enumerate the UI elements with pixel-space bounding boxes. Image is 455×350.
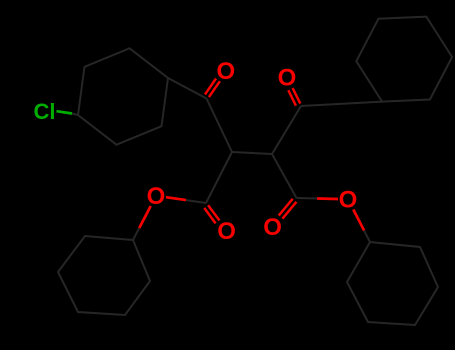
Cl bond green half — [57, 111, 73, 113]
ester 2 O to ring D red half — [353, 210, 364, 231]
ketone 2 double bond C1R=O — [293, 88, 301, 104]
wire central bond C2 to C3 — [232, 152, 272, 154]
ketone 1 double bond C1L=O — [209, 81, 220, 97]
svg-text:Cl: Cl — [34, 99, 56, 124]
wire C1L to central C2 — [207, 99, 233, 153]
wire C2 to ester carbon CeL — [206, 152, 232, 203]
ester 1 C=O double bond — [204, 208, 215, 223]
ester 1 C-O bond gray half — [186, 200, 206, 203]
ester 1 C-O bond red half — [166, 197, 186, 200]
svg-text:O: O — [216, 58, 235, 85]
wire C1R to benzene ring B ipso — [301, 102, 382, 106]
wire ring A ipso to ketone carbon C1L — [168, 78, 207, 99]
ester 1 O to ring C gray stub — [133, 228, 139, 240]
svg-text:O: O — [278, 65, 297, 92]
wire C3 to ketone carbon C1R — [272, 106, 301, 154]
svg-text:O: O — [263, 214, 282, 241]
ester 2 C-O bond red half — [317, 197, 338, 200]
benzene ring D (bottom right) — [347, 242, 438, 325]
wire C3 to ester carbon CeR — [272, 154, 297, 198]
Cl bond gray stub — [72, 114, 78, 116]
ester 2 C-O bond gray half — [297, 197, 318, 200]
ester 1 O to ring C red half — [139, 206, 151, 228]
ester 2 C=O double bond — [279, 199, 293, 216]
svg-text:O: O — [217, 218, 236, 245]
benzene ring C (bottom left) — [58, 236, 150, 315]
benzene ring A (4-chlorophenyl) — [78, 48, 168, 144]
benzene ring B (phenyl top right) — [356, 17, 452, 102]
ester 2 O to ring D gray stub — [364, 231, 370, 243]
